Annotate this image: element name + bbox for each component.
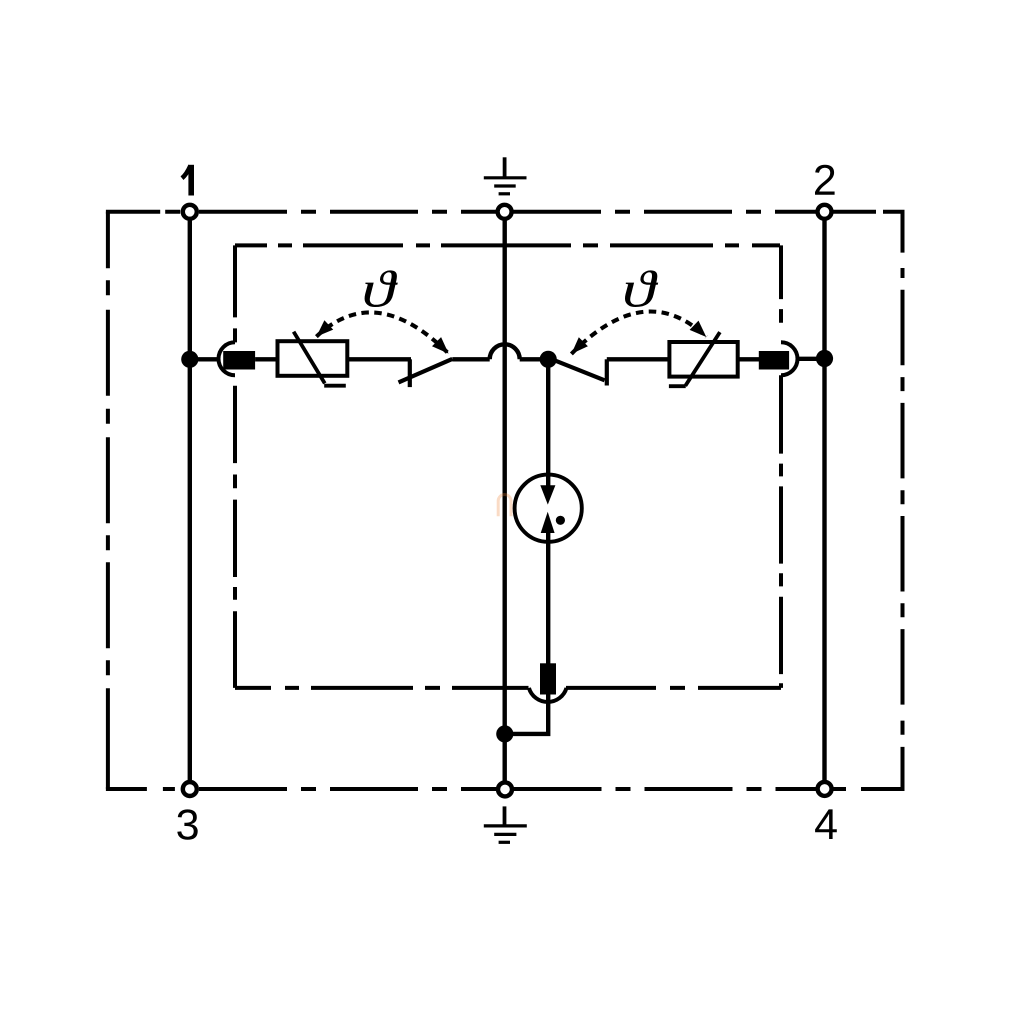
wire: right contact to varistor RV2	[607, 357, 670, 361]
thermal disconnector fixed contact (right)	[605, 359, 609, 385]
terminal 4	[818, 782, 832, 796]
label terminal 2	[815, 165, 835, 195]
inner module border right edge (above socket)	[779, 245, 783, 342]
wire: hop to node K1	[520, 357, 548, 361]
inner module border top edge	[235, 243, 781, 247]
wire: terminal 2 drop line (2 to 4)	[822, 219, 826, 781]
label terminal 4	[815, 809, 837, 839]
wire: left electrode to varistor	[255, 357, 277, 361]
socket arc (left module plug-in contact)	[219, 342, 235, 375]
outer enclosure border left edge	[106, 212, 110, 789]
inner module border right edge (below socket)	[779, 375, 783, 688]
varistor RV2 diagonal stroke	[669, 332, 720, 386]
inner module border bottom edge (left of socket bump)	[235, 686, 529, 690]
junction dot on earth line (bottom)	[496, 725, 513, 742]
module electrode (right, filled)	[759, 351, 789, 370]
varistor RV1 body	[278, 341, 348, 376]
junction dot node 2	[816, 350, 833, 367]
wire hop over centre earth line	[490, 344, 520, 359]
spark gap upper arrow	[540, 485, 555, 504]
thermal disconnector blade (right)	[554, 360, 605, 380]
wire: main horizontal conductor, dot 1 to left socket	[190, 357, 220, 361]
wire: right socket to node on line 2-4	[798, 357, 825, 361]
junction dot node 1	[181, 351, 198, 368]
inner module border left edge (below socket)	[233, 386, 237, 688]
label terminal 3	[177, 809, 197, 839]
varistor RV2 body	[669, 342, 737, 377]
wire: varistor RV1 to thermal contact	[347, 357, 411, 361]
wire: varistor RV2 to right electrode	[738, 357, 760, 361]
terminal earth bottom	[498, 782, 512, 796]
socket arc (right module plug-in contact)	[781, 342, 798, 375]
inner module border bottom edge (right of socket bump)	[566, 686, 781, 690]
inner module border left edge (above socket)	[233, 245, 237, 342]
faint peach hook mark on earth line	[498, 495, 511, 517]
arrowhead thermal arc left end (right arc)	[571, 337, 588, 354]
thermal arc dashed (right)	[571, 311, 706, 353]
outer enclosure border top edge	[106, 210, 905, 214]
arrowhead thermal arc right end (right arc)	[690, 321, 707, 337]
label terminal 1	[182, 165, 191, 196]
spark gap lower arrow	[541, 512, 555, 533]
terminal 1	[183, 205, 197, 219]
socket bump on inner bottom border	[529, 688, 567, 702]
outer enclosure border bottom edge	[106, 787, 905, 791]
varistor RV1 diagonal stroke	[294, 332, 346, 386]
wire: spark gap lower arrow to bottom electrode	[546, 533, 550, 664]
wire: centre earth line (top ground to bottom ground)	[503, 219, 507, 781]
terminal 2	[818, 205, 832, 219]
gas discharge tube F1 body	[515, 475, 582, 542]
wire: terminal 1 drop line (1 to 3)	[188, 219, 192, 781]
thermal disconnector blade (left)	[399, 359, 453, 383]
module electrode (left, filled)	[223, 351, 255, 370]
arrowhead thermal arc left end (left arc)	[316, 320, 333, 336]
wire: bottom electrode to junction on earth line	[506, 695, 548, 734]
outer enclosure border right edge	[901, 212, 905, 789]
earth symbol (top)	[484, 157, 527, 194]
spark gap gas-filled dot	[556, 516, 565, 525]
junction dot node K1	[540, 351, 557, 368]
thermal disconnector fixed contact (left)	[408, 359, 412, 387]
bottom electrode of gas discharge tube (filled)	[540, 663, 556, 694]
terminal 3	[183, 782, 197, 796]
label theta left	[365, 270, 398, 307]
label theta right	[625, 270, 658, 307]
earth symbol (bottom)	[484, 806, 527, 842]
wire: node K1 down to spark gap arrow	[546, 359, 550, 486]
arrowhead thermal arc right end (left arc)	[432, 337, 449, 354]
wire: left blade pivot to centre hop	[452, 357, 489, 361]
terminal earth top	[498, 205, 512, 219]
thermal arc dashed (left)	[316, 312, 448, 353]
